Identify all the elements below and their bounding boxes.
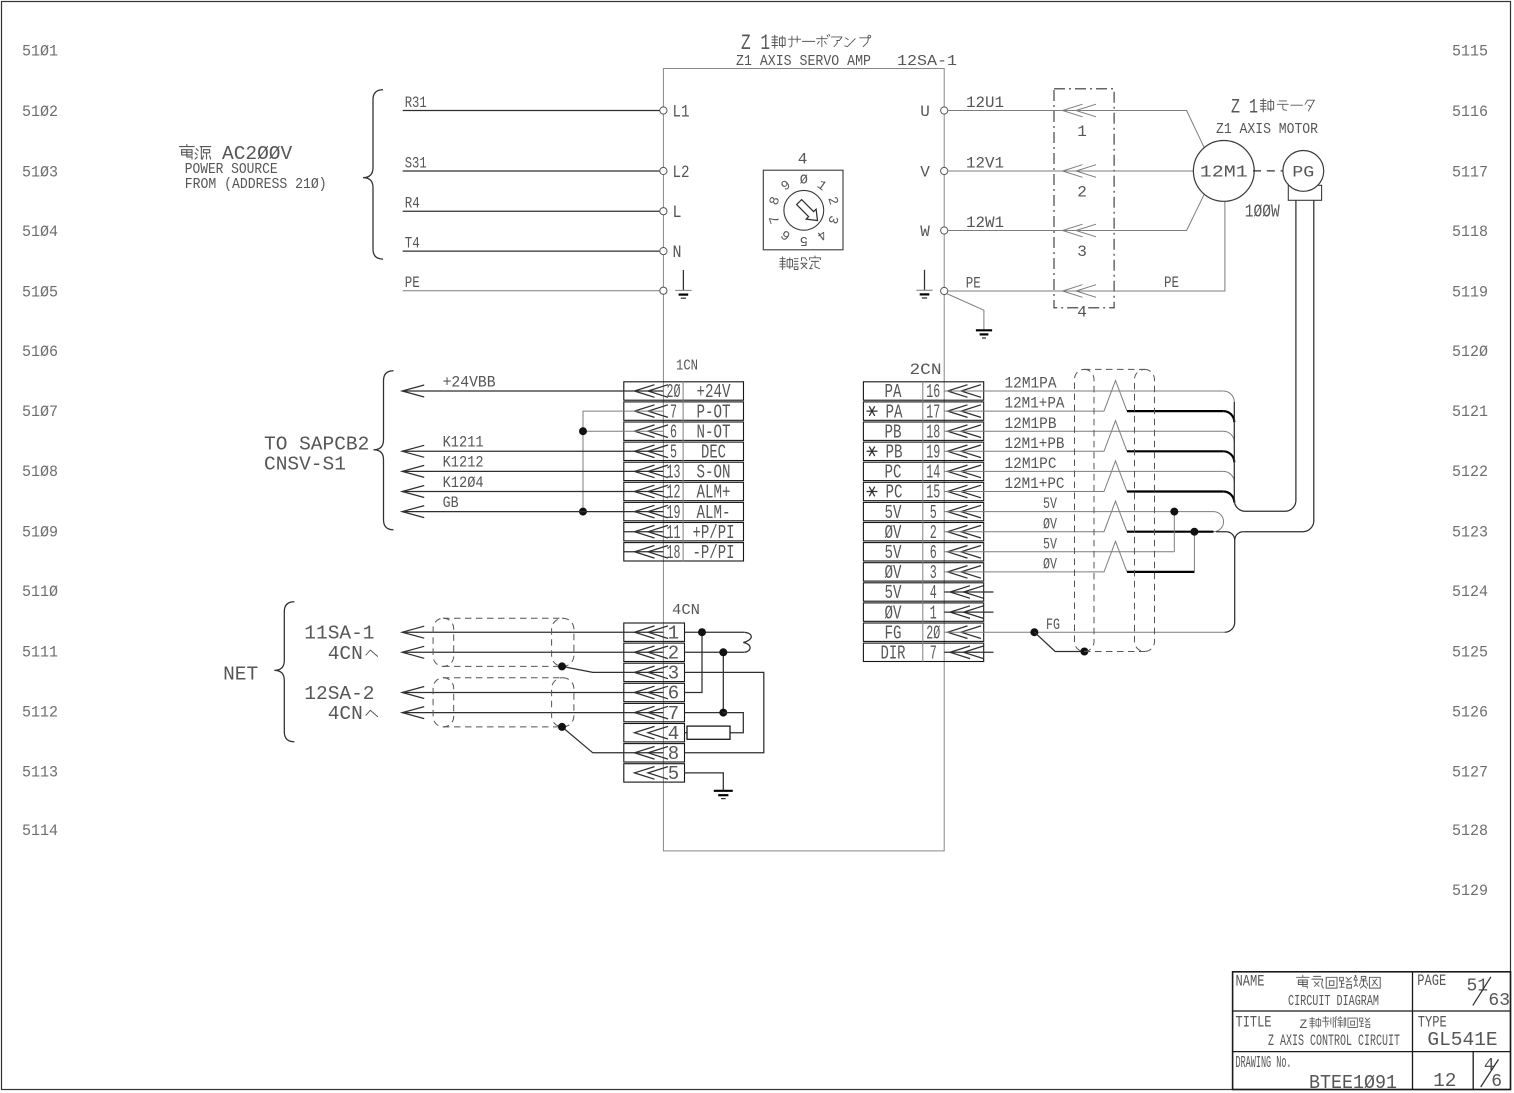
svg-text:5116: 5116 <box>1452 103 1488 121</box>
wire shield2 drain to pin 8 <box>562 727 663 753</box>
wire T4 to terminal N <box>403 250 660 252</box>
wire pin3 to pin8 loop <box>685 672 764 752</box>
wire stub DIR pin7 <box>944 651 993 653</box>
svg-text:N-OT: N-OT <box>697 421 731 443</box>
terminal N <box>660 248 667 255</box>
label: power source (Japanese 電源 AC200V) <box>180 145 195 160</box>
svg-text:5V: 5V <box>885 542 902 564</box>
1CN pin 5 DEC <box>624 442 744 460</box>
2CN pin 19 *PB <box>863 442 983 460</box>
svg-text:12M1: 12M1 <box>1200 163 1248 182</box>
svg-text:FROM (ADDRESS 21Ø): FROM (ADDRESS 21Ø) <box>185 177 327 193</box>
wire K1204 <box>402 491 663 493</box>
rotary switch position digits 0-9 <box>768 174 841 248</box>
label: axis setting (Japanese 軸設定) <box>780 257 793 270</box>
svg-text:4CN: 4CN <box>328 703 363 725</box>
wire pin4 to resistor <box>685 732 688 734</box>
svg-text:+24VBB: +24VBB <box>443 373 496 391</box>
svg-text:DRAWING No.: DRAWING No. <box>1236 1054 1292 1073</box>
svg-text:CNSV-S1: CNSV-S1 <box>264 453 346 475</box>
svg-text:16: 16 <box>926 381 940 403</box>
svg-text:ØV: ØV <box>885 522 902 544</box>
wire NET 12SA-2 line A <box>402 692 663 694</box>
4CN pin 7 <box>624 703 685 721</box>
svg-text:51Ø8: 51Ø8 <box>22 463 58 481</box>
svg-text:6: 6 <box>1491 1072 1502 1092</box>
wire bundle curve 12M1+PB <box>1223 451 1234 462</box>
svg-text:4CN: 4CN <box>672 602 700 619</box>
junction pin1 <box>698 628 706 636</box>
svg-text:K12Ø4: K12Ø4 <box>443 474 484 492</box>
svg-text:Ø: Ø <box>800 174 808 189</box>
svg-text:PA: PA <box>885 381 902 403</box>
junction shield drain <box>1080 648 1088 656</box>
svg-text:12M1PB: 12M1PB <box>1005 415 1057 433</box>
svg-text:4CN: 4CN <box>328 643 363 665</box>
svg-text:5122: 5122 <box>1452 463 1488 481</box>
1CN pin 20 +24V <box>624 382 744 400</box>
wire R4 to terminal L <box>403 210 660 212</box>
svg-text:PE: PE <box>405 274 420 292</box>
wire amp PE to earth <box>947 294 984 331</box>
2CN pin 17 *PA <box>863 402 983 420</box>
svg-text:PB: PB <box>886 442 903 464</box>
svg-text:51Ø5: 51Ø5 <box>22 283 58 301</box>
wire shield1 drain to pin 3 <box>562 666 663 672</box>
2CN pin 7 DIR <box>863 643 983 661</box>
svg-text:51Ø6: 51Ø6 <box>22 343 58 361</box>
wire 0V (2CN pin 3) thick segment <box>1127 571 1194 573</box>
svg-text:5112: 5112 <box>22 703 58 721</box>
svg-text:511Ø: 511Ø <box>22 583 58 601</box>
svg-text:L1: L1 <box>673 102 690 122</box>
wire N-OT to bus <box>583 430 663 432</box>
2CN pin 4 5V <box>863 583 983 601</box>
2CN pin 3 0V <box>863 563 983 581</box>
wire motor to PG (dashed) <box>1253 170 1284 172</box>
svg-text:2Ø: 2Ø <box>667 381 681 403</box>
junction pin2 <box>719 648 727 656</box>
svg-text:Z AXIS CONTROL CIRCUIT: Z AXIS CONTROL CIRCUIT <box>1268 1032 1400 1050</box>
svg-text:ØV: ØV <box>1043 556 1058 574</box>
svg-text:ALM-: ALM- <box>697 502 731 524</box>
svg-text:5125: 5125 <box>1452 643 1488 661</box>
svg-text:5115: 5115 <box>1452 42 1488 60</box>
svg-text:51Ø1: 51Ø1 <box>22 42 58 60</box>
junction pin7 <box>719 709 727 717</box>
svg-text:1ØØW: 1ØØW <box>1245 201 1281 222</box>
svg-text:5123: 5123 <box>1452 523 1488 541</box>
svg-text:6: 6 <box>930 542 937 564</box>
svg-text:1: 1 <box>668 622 679 644</box>
svg-text:PG: PG <box>1292 163 1314 181</box>
svg-text:POWER SOURCE: POWER SOURCE <box>185 162 278 178</box>
svg-text:Z1 AXIS MOTOR: Z1 AXIS MOTOR <box>1216 122 1318 138</box>
svg-text:1: 1 <box>930 602 937 624</box>
svg-text:5V: 5V <box>1043 495 1058 513</box>
wire 5V (2CN pin 5) <box>944 511 1213 513</box>
svg-text:12U1: 12U1 <box>966 94 1004 112</box>
svg-text:4: 4 <box>798 151 808 169</box>
svg-text:8: 8 <box>668 743 679 765</box>
wire K1211 <box>402 450 663 452</box>
svg-text:5: 5 <box>800 232 808 247</box>
svg-text:S-ON: S-ON <box>697 462 731 484</box>
shield of NET cable 2 (dashed) <box>433 678 454 727</box>
wire V phase into motor <box>1114 170 1193 172</box>
svg-text:+P/PI: +P/PI <box>693 522 735 544</box>
svg-text:512Ø: 512Ø <box>1452 343 1488 361</box>
wire 12M1PB (pair with 12M1+PB) <box>944 430 1223 432</box>
svg-text:5V: 5V <box>885 582 902 604</box>
wire GB <box>402 511 663 513</box>
wire pin2 to pin7 link <box>685 652 724 712</box>
svg-text:6: 6 <box>670 421 677 443</box>
wire 12M1+PA thick segment <box>1127 410 1223 412</box>
svg-text:K1212: K1212 <box>443 454 484 472</box>
svg-text:2: 2 <box>1077 184 1087 202</box>
svg-text:PA: PA <box>886 401 903 423</box>
title block <box>1233 972 1511 1093</box>
svg-text:12V1: 12V1 <box>966 154 1004 172</box>
wire PE into motor <box>1114 201 1225 291</box>
wire 12W1 <box>948 230 1114 232</box>
svg-text:U: U <box>920 103 930 121</box>
terminal L1 <box>660 107 667 114</box>
wire R31 to terminal L1 <box>403 110 660 112</box>
wire 12U1 <box>948 110 1114 112</box>
1CN column divider <box>682 381 684 561</box>
svg-text:63: 63 <box>1488 991 1510 1011</box>
svg-text:51Ø7: 51Ø7 <box>22 403 58 421</box>
1CN pin 7 P-OT <box>624 402 744 420</box>
junction 0V <box>1190 528 1198 536</box>
junction FG <box>1030 628 1038 636</box>
2CN pin 6 5V <box>863 543 983 561</box>
svg-text:7: 7 <box>670 401 677 423</box>
svg-text:BTEE1Ø91: BTEE1Ø91 <box>1309 1072 1397 1093</box>
svg-text:5127: 5127 <box>1452 763 1488 781</box>
wire bundle curve 12M1PC <box>1223 471 1234 482</box>
svg-text:Z1 AXIS SERVO AMP: Z1 AXIS SERVO AMP <box>736 54 871 70</box>
svg-text:5114: 5114 <box>22 822 58 840</box>
wire 12M1PA (pair with 12M1+PA) <box>944 390 1223 392</box>
2CN column divider <box>922 381 924 662</box>
svg-text:5113: 5113 <box>22 763 58 781</box>
svg-text:5126: 5126 <box>1452 703 1488 721</box>
svg-text:12SA-1: 12SA-1 <box>897 54 957 70</box>
wire 12M1+PB thick segment <box>1127 450 1223 452</box>
svg-text:14: 14 <box>926 462 940 484</box>
svg-text:R4: R4 <box>405 195 420 213</box>
svg-text:ØV: ØV <box>885 602 902 624</box>
terminal W <box>941 227 948 234</box>
svg-text:2: 2 <box>930 522 937 544</box>
terminal U <box>941 107 948 114</box>
svg-text:T4: T4 <box>405 235 420 253</box>
svg-text:4: 4 <box>668 723 679 745</box>
svg-text:W: W <box>920 223 930 241</box>
resistor (terminating) <box>687 726 730 739</box>
svg-text:12M1+PA: 12M1+PA <box>1005 395 1066 413</box>
svg-text:51Ø9: 51Ø9 <box>22 523 58 541</box>
wire W phase into motor <box>1114 194 1204 231</box>
wire bundle curve 12M1+PA <box>1223 411 1234 422</box>
svg-text:2Ø: 2Ø <box>926 622 940 644</box>
svg-text:5118: 5118 <box>1452 223 1488 241</box>
wire stub 5V pin4 <box>944 591 993 593</box>
svg-text:5117: 5117 <box>1452 163 1488 181</box>
1CN pin 6 N-OT <box>624 422 744 440</box>
4CN pin 6 <box>624 683 685 701</box>
svg-text:12: 12 <box>1433 1070 1456 1092</box>
wire bundle curve 12M1+PC <box>1223 492 1234 503</box>
svg-text:11: 11 <box>667 522 681 544</box>
svg-text:12M1PA: 12M1PA <box>1005 375 1058 393</box>
svg-text:12M1+PB: 12M1+PB <box>1005 435 1065 453</box>
wire pin1 to pin6 link <box>685 631 745 633</box>
4CN pin 1 <box>624 623 685 641</box>
wire PG cable right line <box>1243 200 1314 531</box>
terminal PE (amp right) <box>941 287 948 294</box>
svg-text:2CN: 2CN <box>910 361 942 379</box>
4CN pin 3 <box>624 663 685 681</box>
wire bundle curve 12M1PA <box>1223 391 1234 402</box>
wire PE to motor <box>948 290 1114 292</box>
svg-text:51Ø3: 51Ø3 <box>22 163 58 181</box>
svg-text:5V: 5V <box>1043 535 1058 553</box>
brace: TO SAPCB2 CNSV-S1 group <box>374 371 394 530</box>
svg-text:L2: L2 <box>673 163 690 183</box>
svg-text:6: 6 <box>668 683 679 705</box>
1CN pin 19 ALM- <box>624 502 744 520</box>
4CN pin 8 <box>624 744 685 762</box>
1CN pin 13 S-ON <box>624 462 744 480</box>
svg-text:5128: 5128 <box>1452 822 1488 840</box>
svg-text:12M1+PC: 12M1+PC <box>1005 475 1065 493</box>
svg-text:CIRCUIT DIAGRAM: CIRCUIT DIAGRAM <box>1288 993 1379 1010</box>
svg-text:51Ø4: 51Ø4 <box>22 223 58 241</box>
brace: NET group <box>274 602 294 742</box>
svg-text:-P/PI: -P/PI <box>693 542 735 564</box>
svg-text:12M1PC: 12M1PC <box>1005 455 1057 473</box>
wire U phase into motor <box>1114 111 1204 149</box>
svg-text:PC: PC <box>885 462 902 484</box>
terminal L <box>660 208 667 215</box>
svg-text:TITLE: TITLE <box>1236 1013 1272 1031</box>
svg-text:GB: GB <box>443 494 459 512</box>
wire NET 12SA-2 line B <box>402 712 663 714</box>
svg-text:PC: PC <box>886 482 903 504</box>
svg-text:5V: 5V <box>885 502 902 524</box>
wire pin5 to ground <box>685 773 724 791</box>
grid row labels left 5101-5114 <box>22 42 58 840</box>
ground (earth below amp PE) <box>976 329 992 331</box>
1CN pin 18 -P/PI <box>624 543 744 561</box>
wire stub +P/PI <box>624 531 664 533</box>
4CN pin 4 <box>624 724 685 742</box>
svg-text:PAGE: PAGE <box>1417 972 1446 990</box>
wire 12V1 <box>948 170 1114 172</box>
svg-text:7: 7 <box>668 703 679 725</box>
svg-text:13: 13 <box>667 462 681 484</box>
svg-text:P-OT: P-OT <box>697 401 731 423</box>
1CN pin 12 ALM+ <box>624 482 744 500</box>
svg-text:5121: 5121 <box>1452 403 1488 421</box>
svg-text:5: 5 <box>670 442 677 464</box>
svg-text:18: 18 <box>667 542 681 564</box>
svg-text:51Ø2: 51Ø2 <box>22 103 58 121</box>
wire pin2 <box>685 651 745 653</box>
svg-text:FG: FG <box>1046 616 1060 634</box>
PG connector housing <box>1288 185 1321 200</box>
2CN pin 14 PC <box>863 462 983 480</box>
junction 5V <box>1170 508 1178 516</box>
svg-text:R31: R31 <box>405 94 427 112</box>
shield of NET cable 1 (dashed) <box>433 618 454 666</box>
wire power/shield tee down to FG <box>1216 532 1235 633</box>
terminal V <box>941 167 948 174</box>
svg-text:19: 19 <box>926 442 940 464</box>
svg-text:5119: 5119 <box>1452 283 1488 301</box>
terminal L2 <box>660 167 667 174</box>
svg-text:PB: PB <box>885 421 902 443</box>
svg-text:+24V: +24V <box>697 381 731 403</box>
wire stub -P/PI <box>624 551 664 553</box>
4CN pin 5 <box>624 764 685 782</box>
wire NET 11SA-1 line B <box>402 651 663 653</box>
1CN pin 11 +P/PI <box>624 523 744 541</box>
junction: bus/N-OT <box>579 427 587 435</box>
wire P-OT to bus <box>583 411 663 512</box>
2CN pin 16 PA <box>863 382 983 400</box>
svg-text:12SA-2: 12SA-2 <box>304 683 374 705</box>
svg-text:11SA-1: 11SA-1 <box>304 623 374 645</box>
junction shield2 <box>558 723 566 731</box>
svg-text:18: 18 <box>926 421 940 443</box>
svg-text:1CN: 1CN <box>676 358 698 374</box>
wire PE to ground terminal <box>403 290 660 292</box>
2CN pin 15 *PC <box>863 482 983 500</box>
2CN pin 20 FG <box>863 623 983 641</box>
svg-text:5111: 5111 <box>22 643 58 661</box>
wire +24VBB <box>402 390 663 392</box>
wire 5V (2CN pin 6) pair <box>944 551 1174 553</box>
svg-text:5124: 5124 <box>1452 583 1488 601</box>
svg-text:ALM+: ALM+ <box>697 482 731 504</box>
svg-text:GL541E: GL541E <box>1427 1029 1497 1051</box>
wire 5V/0V U-turn <box>1214 512 1224 532</box>
junction: bus/GB <box>579 508 587 516</box>
svg-text:NET: NET <box>223 664 258 686</box>
svg-text:4: 4 <box>1077 304 1087 322</box>
svg-text:V: V <box>920 164 930 182</box>
wire FG to shield <box>1034 632 1084 651</box>
shield of encoder cable (dashed) <box>1075 369 1095 651</box>
svg-text:FG: FG <box>885 622 902 644</box>
2CN pin 18 PB <box>863 422 983 440</box>
svg-text:N: N <box>673 243 682 263</box>
svg-text:S31: S31 <box>405 154 427 172</box>
rotary switch: axis setting, position 4 <box>763 170 843 250</box>
svg-text:3: 3 <box>930 562 937 584</box>
2CN pin 1 0V <box>863 603 983 621</box>
junction shield1 <box>558 662 566 670</box>
wire K1212 <box>402 470 663 472</box>
svg-text:ØV: ØV <box>1043 515 1058 533</box>
op-amp U1 : servo amplifier 12SA-1 enclosure box <box>663 69 944 851</box>
wire FG <box>944 631 1224 633</box>
svg-text:1: 1 <box>1077 123 1087 141</box>
svg-text:3: 3 <box>668 663 679 685</box>
wire 5V pin6 riser <box>1173 512 1175 552</box>
svg-text:PE: PE <box>966 275 981 293</box>
svg-text:Z 1: Z 1 <box>741 31 770 56</box>
svg-text:TO SAPCB2: TO SAPCB2 <box>264 433 369 455</box>
encoder PG <box>1283 151 1324 192</box>
2CN pin 5 5V <box>863 502 983 520</box>
svg-text:5129: 5129 <box>1452 882 1488 900</box>
svg-text:4: 4 <box>930 582 937 604</box>
svg-text:Z: Z <box>1300 1017 1308 1032</box>
wire bundle curve 12M1PB <box>1223 431 1234 442</box>
wire encoder bundle rail <box>1234 200 1296 511</box>
svg-text:L: L <box>673 203 682 223</box>
2CN pin 2 0V <box>863 523 983 541</box>
4CN pin 2 <box>624 643 685 661</box>
svg-text:5: 5 <box>668 763 679 785</box>
wire 12M1+PC thick segment <box>1127 490 1223 492</box>
svg-text:NAME: NAME <box>1236 972 1265 990</box>
wire 12M1PC (pair with 12M1+PC) <box>944 470 1223 472</box>
wire 0V (2CN pin 2) thick segment <box>1127 531 1214 533</box>
svg-text:17: 17 <box>926 401 940 423</box>
svg-text:7: 7 <box>930 643 937 665</box>
svg-text:DEC: DEC <box>701 442 726 464</box>
motor connector (dash-dot box) <box>1054 89 1114 308</box>
svg-text:3: 3 <box>1077 243 1087 261</box>
ground (4CN pin5) <box>714 790 733 792</box>
svg-text:2: 2 <box>668 643 679 665</box>
svg-text:5: 5 <box>930 502 937 524</box>
svg-text:DIR: DIR <box>881 643 906 665</box>
twisted pair curl <box>743 632 751 652</box>
svg-text:PE: PE <box>1164 274 1179 292</box>
svg-text:K1211: K1211 <box>443 434 484 452</box>
wire stub 0V pin1 <box>944 611 993 613</box>
svg-text:12W1: 12W1 <box>966 214 1004 232</box>
wire S31 to terminal L2 <box>403 170 660 172</box>
wire NET 11SA-1 line A <box>402 631 663 633</box>
svg-text:19: 19 <box>667 502 681 524</box>
rotary switch pointer arrow <box>797 200 818 221</box>
grid row labels right 5115-5129 <box>1452 42 1488 900</box>
motor 12M1 <box>1193 141 1254 202</box>
svg-text:ØV: ØV <box>885 562 902 584</box>
wire pin7 to resistor <box>723 713 743 733</box>
svg-text:12: 12 <box>667 482 681 504</box>
terminal PE with ground symbol <box>660 287 667 294</box>
brace: power source group <box>363 90 383 259</box>
svg-text:15: 15 <box>926 482 940 504</box>
svg-text:Z 1: Z 1 <box>1231 96 1258 119</box>
